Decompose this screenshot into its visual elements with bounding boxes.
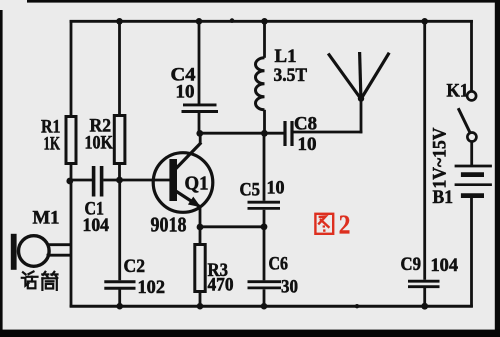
wire C9 to bottom rail: [423, 288, 426, 306]
capacitor C8: [285, 115, 317, 156]
svg-text:C2: C2: [124, 256, 146, 277]
junction node C2 ground: [116, 303, 123, 310]
svg-text:C6: C6: [269, 254, 289, 275]
wire C5/C6 node down to C6: [263, 227, 266, 280]
wire R2 bottom lead: [118, 164, 121, 181]
svg-text:30: 30: [281, 277, 298, 298]
wire K1 to battery B1: [470, 142, 473, 166]
svg-text:Q1: Q1: [185, 173, 209, 195]
resistor R3: [195, 245, 234, 296]
svg-text:470: 470: [208, 275, 234, 296]
wire R2 top lead from rail: [118, 21, 121, 115]
wire R1 top lead from rail: [70, 20, 73, 117]
capacitor C2: [104, 256, 165, 298]
capacitor C1: [83, 166, 110, 236]
wire L1 bottom lead: [263, 110, 266, 133]
wire C9 branch from top rail: [423, 21, 426, 280]
transistor Q1: [151, 143, 213, 237]
wire right branch from rail to K1: [470, 20, 473, 91]
wire M1 lower lead: [47, 254, 72, 257]
svg-text:3.5T: 3.5T: [274, 66, 308, 86]
resistor R1: [41, 117, 76, 164]
svg-text:2: 2: [339, 208, 351, 239]
junction node collector/C4/tank: [196, 130, 203, 137]
junction node C9 ground: [421, 303, 428, 310]
junction node R3 ground: [197, 303, 204, 310]
wire R3 bottom lead to rail: [199, 292, 202, 307]
wire left rail (R1/C1/M1 node down to bottom rail): [70, 180, 73, 308]
svg-text:10: 10: [298, 135, 317, 155]
wire C1 left lead: [70, 179, 93, 182]
label 话筒 (microphone): [22, 272, 58, 290]
svg-text:C5: C5: [240, 181, 261, 201]
capacitor C5: [240, 179, 285, 209]
wire R2 node down to C2: [118, 180, 121, 280]
svg-text:10: 10: [267, 179, 285, 199]
capacitor C9: [401, 255, 459, 287]
junction stray dot on top rail: [230, 18, 235, 23]
antenna: [328, 52, 389, 99]
svg-text:10: 10: [176, 82, 195, 103]
junction node C6 ground: [261, 303, 268, 310]
junction node emitter/R3/C5: [197, 224, 204, 231]
junction node C5/C6: [261, 223, 268, 230]
junction node C9 top rail: [421, 18, 428, 25]
wire C8 to antenna stem: [293, 131, 363, 134]
junction stray dot on bottom rail: [355, 304, 359, 308]
junction node antenna feed: [358, 95, 364, 101]
svg-text:9018: 9018: [151, 213, 187, 237]
svg-text:10K: 10K: [85, 133, 114, 154]
wire C5 bottom lead: [263, 210, 266, 227]
switch K1: [447, 81, 477, 142]
resistor R2: [85, 116, 125, 164]
microphone M1: [11, 208, 60, 270]
wire tank node horizontal (collector to L1 and C8): [200, 132, 285, 135]
wire tank node down to C5: [263, 133, 266, 201]
wire L1 top lead from rail: [263, 21, 266, 58]
wire C4 top lead from rail: [198, 21, 201, 103]
svg-text:104: 104: [83, 216, 110, 236]
wire emitter node to C5/C6 node: [200, 225, 264, 228]
wire C4 bottom lead to collector node: [198, 113, 201, 134]
wire antenna stem: [360, 98, 363, 134]
label 图2 (figure 2, red): [315, 208, 350, 239]
wire C6 to bottom rail: [263, 289, 266, 306]
wire Q1 emitter down to R3: [199, 206, 202, 244]
inductor L1: [256, 46, 308, 110]
wire C1 right lead to R2 node: [103, 179, 119, 182]
wire battery B1 to bottom rail: [470, 196, 473, 307]
capacitor C6: [248, 254, 299, 298]
junction node C1/R2/base: [116, 177, 123, 184]
wire R1 bottom lead: [70, 164, 73, 182]
junction node C4 top rail: [196, 18, 203, 25]
junction node R1/C1/M1: [66, 178, 73, 185]
wire collector node to Q1 collector: [199, 133, 202, 144]
svg-text:102: 102: [138, 277, 166, 298]
wire C2 to bottom rail: [118, 290, 121, 307]
wire top supply rail: [70, 20, 473, 23]
svg-text:K1: K1: [447, 81, 469, 102]
svg-text:L1: L1: [275, 46, 297, 67]
wire base of Q1: [120, 179, 171, 182]
svg-text:M1: M1: [33, 208, 60, 229]
svg-text:1K: 1K: [44, 134, 61, 155]
svg-text:C9: C9: [401, 255, 422, 275]
junction node L1 top rail: [261, 18, 268, 25]
svg-text:B1: B1: [433, 187, 454, 208]
wire M1 upper lead: [47, 243, 72, 246]
battery B1: [431, 127, 492, 208]
svg-text:104: 104: [431, 256, 459, 276]
wire bottom ground rail: [70, 305, 473, 308]
junction node L1/C8/C5: [261, 130, 268, 137]
svg-text:1V~15V: 1V~15V: [431, 127, 451, 189]
capacitor C4: [171, 65, 219, 112]
junction node R2 top rail: [116, 18, 123, 25]
svg-text:C8: C8: [294, 115, 317, 135]
